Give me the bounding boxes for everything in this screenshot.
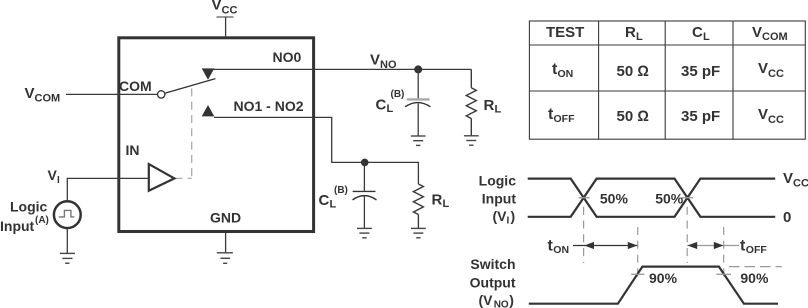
capacitor CL1 label — [376, 89, 405, 115]
svg-text:(B): (B) — [334, 185, 348, 196]
level label VCC — [783, 170, 808, 190]
resistor RL2 — [413, 184, 423, 228]
svg-text:L: L — [387, 103, 394, 115]
svg-text:50 Ω: 50 Ω — [617, 63, 649, 80]
ground below RL1 — [464, 136, 479, 145]
IC U1 box — [119, 38, 314, 232]
svg-text:C: C — [376, 97, 387, 114]
switch S1 throw NO0 contact — [202, 68, 215, 79]
supply VCC label — [212, 0, 238, 17]
resistor RL1 — [466, 69, 476, 135]
measure dashed line at output fall 90% — [723, 227, 725, 281]
table cell tON VCOM value — [758, 60, 784, 80]
tOFF dimension arrow — [687, 242, 739, 249]
output fall 90% tick — [716, 273, 731, 275]
switch S1 lever — [165, 79, 216, 94]
node junction VNO — [414, 65, 422, 73]
svg-text:50%: 50% — [600, 191, 629, 207]
svg-text:L: L — [703, 31, 710, 43]
svg-text:V: V — [783, 170, 793, 187]
measure dashed line at output rise 90% — [637, 227, 639, 281]
svg-text:V: V — [212, 0, 222, 14]
svg-text:(V: (V — [493, 208, 508, 224]
svg-text:): ) — [511, 208, 516, 224]
svg-text:C: C — [692, 24, 703, 41]
svg-text:V: V — [48, 167, 58, 183]
svg-text:R: R — [625, 24, 636, 41]
wire NO1-NO2 out — [214, 117, 418, 184]
tON dimension arrow — [573, 242, 638, 249]
svg-text:(B): (B) — [391, 89, 405, 100]
svg-text:50%: 50% — [655, 191, 684, 207]
svg-text:NO: NO — [380, 59, 397, 71]
svg-text:IN: IN — [126, 142, 140, 158]
svg-text:Logic: Logic — [10, 198, 48, 214]
ground below V1 — [60, 253, 75, 263]
svg-text:V: V — [370, 52, 380, 69]
capacitor CL1 top wire — [417, 69, 419, 98]
svg-text:L: L — [443, 198, 450, 210]
svg-text:NO1 - NO2: NO1 - NO2 — [234, 98, 304, 114]
svg-text:35 pF: 35 pF — [681, 63, 720, 80]
svg-text:GND: GND — [210, 210, 241, 226]
svg-text:CC: CC — [793, 178, 808, 190]
wire VCC to U1 — [225, 17, 227, 36]
measure dashed line at crossing 2 — [686, 207, 688, 263]
timing label Logic Input (VI) — [479, 173, 517, 207]
svg-text:COM: COM — [119, 78, 152, 94]
svg-text:V: V — [752, 24, 762, 41]
capacitor CL2 bottom wire — [363, 197, 365, 229]
ground below CL1 — [411, 136, 426, 145]
ground below U1 — [217, 253, 233, 263]
capacitor CL2 top wire — [363, 162, 365, 190]
svg-text:CC: CC — [222, 5, 238, 17]
timing label Switch Output (VNO) — [470, 256, 516, 291]
resistor RL2 label — [432, 192, 450, 211]
svg-text:C: C — [319, 192, 330, 209]
svg-text:0: 0 — [783, 209, 791, 226]
net VNO label — [370, 52, 397, 72]
switch S1 throw NO1-NO2 contact — [202, 105, 215, 116]
svg-text:L: L — [495, 104, 502, 116]
source V1 pulse generator — [54, 201, 81, 228]
switch S1 pole contact — [158, 91, 165, 98]
svg-text:35 pF: 35 pF — [681, 108, 720, 125]
node junction NO1-NO2 net — [361, 159, 369, 167]
svg-text:COM: COM — [762, 31, 788, 43]
svg-text:ON: ON — [558, 68, 574, 80]
table header CL — [692, 24, 710, 43]
net VI label — [48, 167, 61, 186]
label tON — [548, 238, 570, 256]
svg-text:R: R — [484, 97, 495, 114]
capacitor CL2 — [353, 191, 377, 200]
table header VCOM — [752, 24, 788, 43]
output rise 90% tick — [631, 273, 644, 275]
supply VCC bar — [217, 16, 234, 18]
waveform switch output — [529, 267, 778, 304]
svg-text:V: V — [25, 85, 35, 102]
svg-text:Logic: Logic — [479, 173, 517, 189]
source V1 pulse symbol — [59, 210, 75, 217]
output high reference dashed line — [729, 266, 782, 268]
table cell tOFF VCOM value — [758, 106, 784, 126]
crossing tick 1 — [579, 197, 590, 199]
capacitor CL1 bottom wire — [417, 104, 419, 137]
wire VI to IN — [67, 178, 149, 200]
capacitor CL1 — [405, 99, 430, 106]
svg-text:90%: 90% — [649, 270, 678, 286]
svg-text:L: L — [330, 199, 337, 211]
svg-text:Input: Input — [482, 190, 517, 206]
net VCOM label — [25, 85, 61, 105]
svg-text:L: L — [636, 31, 643, 43]
svg-text:NO0: NO0 — [273, 49, 302, 65]
source V1 label Logic Input (A) — [0, 198, 49, 234]
ground below RL2 — [411, 228, 426, 237]
svg-text:OFF: OFF — [746, 244, 768, 256]
wire NO0 to RL1 — [208, 68, 471, 70]
svg-text:50 Ω: 50 Ω — [617, 108, 649, 125]
measure dashed line at crossing 1 — [583, 207, 585, 263]
svg-text:Input: Input — [0, 218, 35, 234]
svg-text:(A): (A) — [35, 215, 49, 226]
table cell tOFF — [548, 106, 575, 125]
wire GND pin to ground — [225, 233, 227, 253]
svg-text:): ) — [509, 292, 514, 308]
svg-text:V: V — [758, 106, 768, 123]
svg-text:ON: ON — [553, 244, 569, 256]
ground below CL2 — [357, 228, 372, 237]
resistor RL1 label — [484, 97, 502, 116]
svg-text:NO: NO — [494, 300, 509, 308]
table cell tON — [552, 61, 573, 80]
svg-text:Switch: Switch — [470, 256, 515, 272]
wire VCOM to COM — [66, 93, 158, 95]
svg-text:V: V — [758, 60, 768, 77]
svg-text:CC: CC — [768, 68, 784, 80]
svg-text:(V: (V — [479, 292, 494, 308]
waveform logic input — [528, 179, 776, 217]
svg-text:Output: Output — [470, 275, 516, 291]
capacitor CL2 label — [319, 185, 348, 211]
wire V1 to ground — [66, 228, 68, 253]
svg-text:90%: 90% — [740, 270, 769, 286]
svg-text:I: I — [57, 175, 60, 186]
label tOFF — [740, 238, 767, 256]
svg-text:COM: COM — [35, 93, 61, 105]
test conditions table — [529, 21, 805, 139]
svg-text:TEST: TEST — [546, 24, 584, 41]
svg-text:R: R — [432, 192, 443, 209]
svg-text:I: I — [507, 216, 510, 227]
switch S1 control dashed link — [174, 89, 191, 179]
table header RL — [625, 24, 643, 43]
svg-text:CC: CC — [768, 114, 784, 126]
crossing tick 2 — [682, 197, 693, 199]
buffer U1A — [149, 164, 175, 191]
svg-text:OFF: OFF — [554, 113, 576, 125]
